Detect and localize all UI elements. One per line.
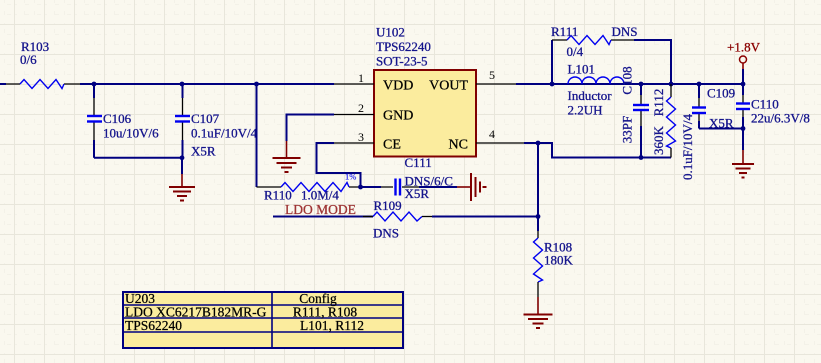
svg-text:0/6: 0/6 [20, 52, 37, 67]
svg-text:X5R: X5R [191, 144, 216, 159]
wire left-edge stub to R103 [0, 83, 6, 85]
node junction R109/R108 [536, 214, 541, 219]
wire C109 bottom to C110 branch [699, 128, 743, 130]
svg-text:TPS62240: TPS62240 [125, 318, 182, 333]
svg-text:CE: CE [383, 138, 401, 153]
ground below R108 [524, 297, 553, 328]
node junction R111 branch [550, 82, 555, 87]
svg-text:2: 2 [358, 101, 364, 115]
svg-text:3: 3 [358, 130, 364, 144]
node junction bottom bus [180, 155, 185, 160]
ground below C110 [732, 150, 754, 178]
IC U102 TPS62240 [374, 25, 476, 157]
svg-text:SOT-23-5: SOT-23-5 [376, 54, 428, 69]
node junction R110 branch tap [254, 82, 259, 87]
svg-text:+1.8V: +1.8V [727, 40, 761, 55]
ground sideways right of C111 [457, 173, 487, 201]
svg-text:33PF: 33PF [620, 116, 635, 143]
svg-text:R110: R110 [264, 188, 292, 203]
capacitor C110 [736, 84, 810, 150]
resistor R108 [534, 231, 574, 297]
svg-text:NC: NC [449, 138, 468, 153]
ground below C106/C107 [169, 158, 195, 201]
svg-text:180K: 180K [544, 253, 574, 268]
wire NC pin-4 net [524, 143, 671, 158]
node junction +1.8V/C110 [741, 82, 746, 87]
svg-text:0.1uF/10V/4: 0.1uF/10V/4 [680, 113, 695, 180]
resistor R110 [257, 183, 361, 203]
svg-text:DNS: DNS [612, 24, 638, 39]
svg-text:C110: C110 [751, 97, 779, 112]
resistor R111 [551, 24, 671, 84]
table config [123, 291, 403, 348]
svg-text:1.0M/4: 1.0M/4 [301, 188, 339, 203]
resistor R112 [651, 84, 676, 158]
svg-text:DNS: DNS [373, 226, 399, 241]
node junction C109/C110 bottom [741, 126, 746, 131]
node junction R112 top [669, 82, 674, 87]
label 1% with underline [345, 172, 356, 182]
pin 1 VDD [334, 83, 374, 85]
power port +1.8V [727, 40, 761, 85]
svg-text:360K: 360K [651, 125, 666, 155]
wire R110 branch vertical [256, 84, 258, 187]
svg-text:22u/6.3V/8: 22u/6.3V/8 [751, 111, 810, 126]
resistor R109 [273, 198, 538, 241]
svg-text:0/4: 0/4 [567, 44, 584, 59]
svg-text:R109: R109 [374, 198, 402, 213]
capacitor C109 [680, 84, 735, 180]
node junction C108 top [639, 82, 644, 87]
wire C111 to sideways ground [419, 186, 457, 188]
svg-text:R112: R112 [651, 89, 666, 117]
node junction C108 bottom [639, 155, 644, 160]
svg-text:1%: 1% [345, 172, 356, 182]
svg-text:R111: R111 [551, 24, 578, 39]
resistor R103 [6, 39, 80, 89]
svg-text:5: 5 [489, 68, 495, 82]
svg-text:Inductor: Inductor [568, 88, 613, 103]
capacitor C106 [87, 84, 159, 158]
svg-text:L101: L101 [568, 62, 595, 77]
svg-text:C106: C106 [103, 111, 132, 126]
svg-text:C109: C109 [707, 86, 735, 101]
node junction C106 tap [92, 82, 97, 87]
wire GND pin to ground [287, 115, 335, 142]
node junction C107 tap [180, 82, 185, 87]
pin 3 CE [330, 142, 374, 144]
wire junction down to R109/R108 [537, 143, 539, 231]
svg-text:C111: C111 [405, 155, 432, 170]
svg-text:1: 1 [358, 71, 364, 85]
svg-text:X5R: X5R [405, 186, 430, 201]
pin 5 VOUT [476, 83, 516, 85]
wire C106/C107 bottom bus [94, 157, 182, 159]
svg-text:VOUT: VOUT [429, 79, 468, 94]
svg-text:C107: C107 [191, 111, 220, 126]
wire CE pin net [317, 143, 361, 187]
svg-text:C108: C108 [620, 66, 635, 94]
pin 2 GND [334, 114, 374, 116]
svg-text:LDO MODE: LDO MODE [285, 202, 356, 217]
capacitor C108 [620, 66, 650, 157]
ground below GND pin [273, 141, 301, 172]
svg-text:2.2UH: 2.2UH [568, 103, 603, 118]
node junction pin4/R108 [536, 141, 541, 146]
node junction C109 top [697, 82, 702, 87]
svg-text:VDD: VDD [383, 79, 413, 94]
svg-text:TPS62240: TPS62240 [376, 39, 431, 54]
node junction CE/R110/C111 [358, 185, 363, 190]
capacitor C107 [175, 84, 258, 159]
svg-text:4: 4 [489, 127, 495, 141]
wire main VIN rail [80, 83, 334, 85]
wire VOUT rail [516, 83, 743, 85]
pin 4 NC [476, 142, 524, 144]
svg-text:0.1uF/10V/4: 0.1uF/10V/4 [191, 126, 258, 141]
svg-text:L101, R112: L101, R112 [300, 318, 364, 333]
capacitor C111 [361, 155, 453, 201]
inductor L101 [568, 62, 625, 118]
svg-text:GND: GND [383, 109, 413, 124]
svg-text:10u/10V/6: 10u/10V/6 [103, 126, 159, 141]
svg-text:U102: U102 [376, 25, 405, 40]
